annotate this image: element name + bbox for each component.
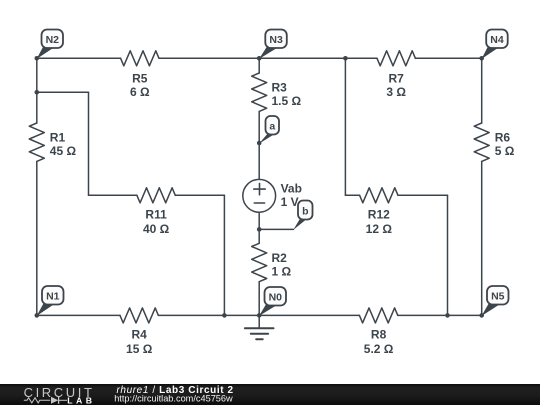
resistor R1 [29, 123, 44, 161]
node N5 dot [479, 313, 484, 318]
junction top rail R12 branch [343, 56, 348, 61]
wire R12 branch down to bottom rail [447, 195, 449, 315]
svg-text:N5: N5 [491, 291, 505, 303]
node a tail [259, 134, 273, 144]
node N0 box [265, 287, 287, 306]
resistor R6 [474, 123, 489, 161]
wire top rail R5-N3 [159, 57, 259, 59]
footer bar [0, 384, 540, 405]
node label boxes [42, 30, 509, 306]
svg-text:http://circuitlab.com/c45756w: http://circuitlab.com/c45756w [114, 393, 233, 403]
wire R12 branch from top rail [344, 58, 346, 195]
junction bottom rail R12 branch [445, 313, 450, 318]
voltage source plus sign [254, 183, 265, 194]
wire top rail R7-N4 [415, 57, 481, 59]
svg-text:1 V: 1 V [281, 195, 299, 209]
node N2 dot [35, 56, 40, 61]
svg-text:R6: R6 [495, 131, 511, 145]
logo resistor zigzag [24, 398, 50, 403]
resistor R2 [252, 243, 267, 281]
resistor R5 [121, 51, 159, 66]
svg-text:LAB: LAB [67, 396, 92, 405]
svg-text:a: a [269, 121, 275, 133]
ground symbol bars [245, 328, 274, 339]
svg-text:R2: R2 [272, 251, 288, 265]
wire bottom rail R8-N5 [398, 314, 482, 316]
node N2 tail [37, 46, 54, 59]
wire left rail N2 down [36, 58, 38, 123]
svg-text:N4: N4 [490, 34, 504, 46]
ground stub at N0 [258, 315, 260, 328]
logo diode [51, 397, 58, 404]
wire R11 right [175, 194, 224, 196]
junction left branch [35, 90, 40, 95]
voltage source Vab circle [243, 179, 276, 212]
wire top rail N3-R7 [259, 57, 377, 59]
svg-text:R3: R3 [272, 81, 288, 95]
voltage source minus sign [254, 202, 264, 204]
node N1 box [42, 286, 64, 305]
node b box [298, 201, 313, 220]
svg-text:R11: R11 [145, 208, 167, 222]
svg-text:R1: R1 [50, 131, 66, 145]
wire bottom rail N1-R4 [37, 314, 120, 316]
wire left rail R1-N1 [36, 161, 38, 315]
wire bottom rail N0-R8 [259, 314, 359, 316]
node label tails [37, 46, 499, 316]
wire bottom rail R4-N0 [158, 314, 259, 316]
node N0 tail [259, 304, 277, 317]
wire node b stub right [259, 228, 293, 230]
node N2 box [42, 30, 64, 49]
node N1 tail [37, 303, 54, 317]
wire middle column N3-R3 [258, 58, 260, 73]
resistor R8 [359, 308, 397, 323]
svg-text:R4: R4 [132, 328, 148, 342]
wire R11 branch down to bottom rail [223, 195, 225, 315]
wire node a to Vab top [258, 143, 260, 179]
wire Vab bottom to node b [258, 212, 260, 229]
node b tail [293, 218, 306, 230]
svg-text:45 Ω: 45 Ω [50, 144, 77, 158]
wire left branch to R11 [89, 194, 137, 196]
wire node b to R2 [258, 229, 260, 243]
node N5 tail [482, 303, 500, 316]
wire R2 to N0 [258, 282, 260, 316]
svg-text:b: b [302, 206, 308, 218]
svg-text:1.5 Ω: 1.5 Ω [272, 94, 302, 108]
wire right rail N4 down [481, 58, 483, 123]
svg-text:5 Ω: 5 Ω [495, 144, 515, 158]
svg-text:1 Ω: 1 Ω [272, 264, 292, 278]
svg-text:6 Ω: 6 Ω [130, 85, 150, 99]
node N4 box [486, 30, 508, 49]
node N0 dot [257, 313, 262, 318]
wire R3 to node a [258, 111, 260, 143]
junction bottom rail R11 branch [222, 313, 227, 318]
wire R12 right [398, 194, 448, 196]
node N3 box [265, 30, 287, 49]
svg-text:40 Ω: 40 Ω [143, 222, 170, 236]
svg-text:Vab: Vab [281, 182, 302, 196]
node N5 box [487, 286, 509, 305]
svg-text:N3: N3 [269, 34, 283, 46]
wire left branch horizontal [37, 91, 89, 93]
svg-text:R12: R12 [368, 208, 390, 222]
node N3 tail [259, 46, 277, 59]
svg-text:12 Ω: 12 Ω [366, 222, 393, 236]
wire top rail N2-R5 [37, 57, 121, 59]
node N4 dot [479, 56, 484, 61]
svg-text:N1: N1 [46, 291, 60, 303]
node b dot [257, 227, 262, 232]
node a dot [257, 141, 262, 146]
node N4 tail [482, 46, 499, 59]
svg-text:N2: N2 [46, 34, 60, 46]
node N1 dot [35, 313, 40, 318]
resistor R12 [360, 188, 398, 203]
resistor R3 [252, 73, 267, 111]
svg-text:R7: R7 [389, 72, 405, 86]
svg-text:R5: R5 [132, 72, 148, 86]
resistor R11 [137, 188, 175, 203]
labels text [46, 34, 515, 356]
node a box [266, 116, 280, 135]
resistor R4 [120, 308, 158, 323]
svg-text:N0: N0 [269, 292, 283, 304]
resistor R7 [377, 51, 415, 66]
wire right rail R6-N5 [481, 161, 483, 315]
svg-text:5.2 Ω: 5.2 Ω [364, 342, 394, 356]
svg-text:R8: R8 [371, 328, 387, 342]
svg-text:15 Ω: 15 Ω [126, 342, 153, 356]
wire R12 left [345, 194, 359, 196]
svg-text:3 Ω: 3 Ω [386, 85, 406, 99]
wire left branch vertical [88, 92, 90, 195]
node N3 dot [257, 56, 262, 61]
